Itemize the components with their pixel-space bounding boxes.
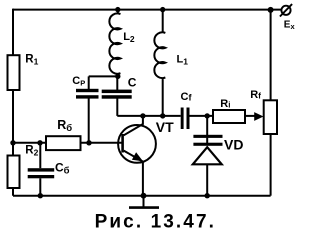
svg-text:C: C xyxy=(128,76,137,90)
svg-text:Cб: Cб xyxy=(55,160,70,176)
svg-text:Рис. 13.47.: Рис. 13.47. xyxy=(95,212,216,233)
svg-text:Rf: Rf xyxy=(250,89,261,101)
svg-text:L2: L2 xyxy=(123,31,135,44)
svg-text:VT: VT xyxy=(156,119,174,135)
svg-text:R2: R2 xyxy=(25,145,38,158)
svg-text:L1: L1 xyxy=(177,53,189,66)
svg-text:VD: VD xyxy=(224,137,243,153)
svg-text:CР: CР xyxy=(72,75,85,87)
svg-text:R1: R1 xyxy=(25,53,38,66)
svg-text:Ex: Ex xyxy=(284,19,296,31)
svg-text:Ri: Ri xyxy=(220,98,230,110)
svg-text:Cf: Cf xyxy=(181,91,193,103)
svg-text:Rб: Rб xyxy=(57,118,72,134)
